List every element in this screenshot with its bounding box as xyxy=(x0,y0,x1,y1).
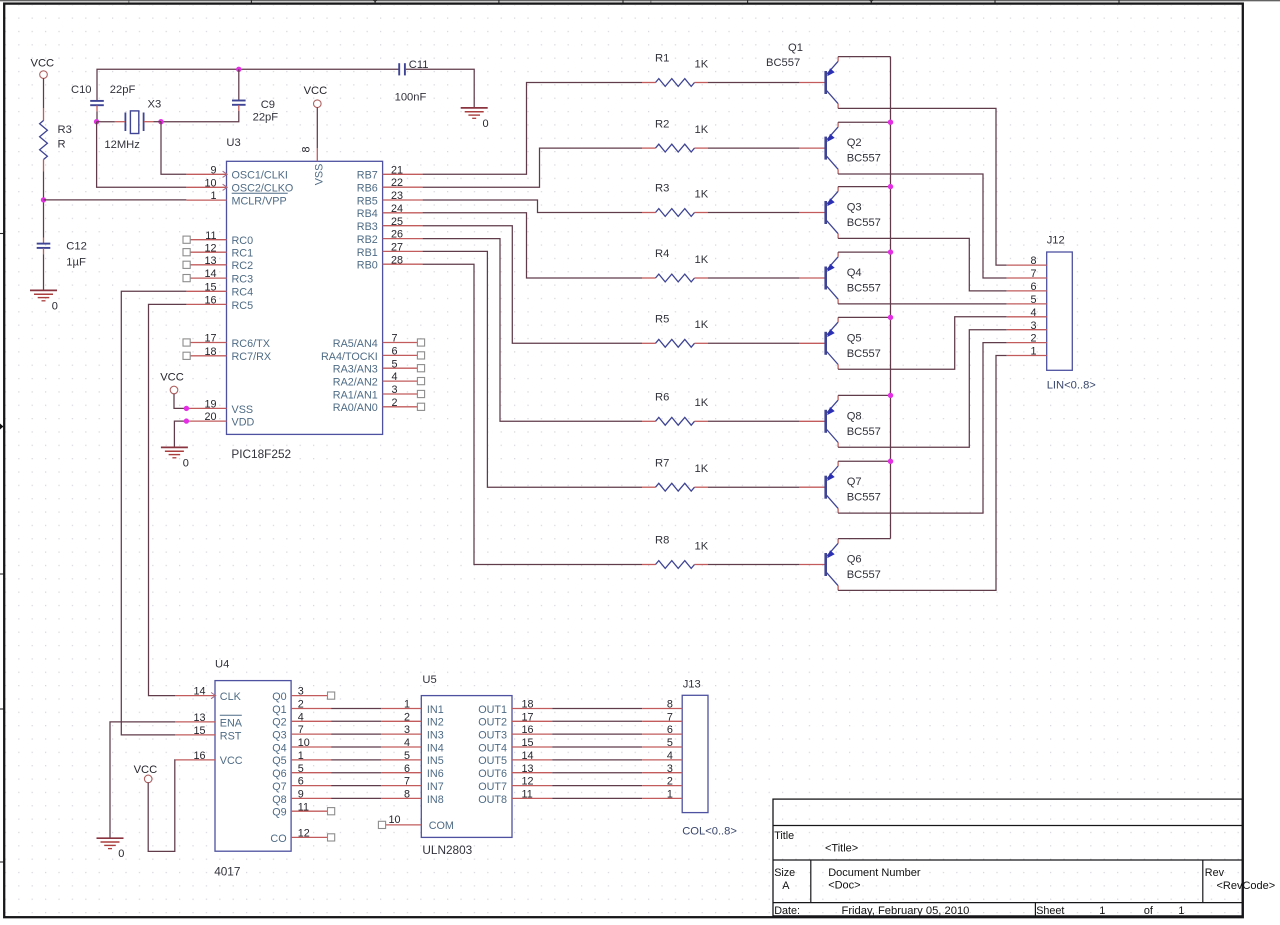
svg-text:1K: 1K xyxy=(695,397,709,409)
svg-text:<RevCode>: <RevCode> xyxy=(1217,880,1276,892)
wire U5 OUT1 to J13 pin8 xyxy=(552,708,642,710)
connector J12 pin 1 xyxy=(1007,346,1047,358)
svg-text:24: 24 xyxy=(391,203,403,215)
wire U5 OUT3 to J13 pin6 xyxy=(552,733,642,735)
power symbol VCC near U4 xyxy=(134,764,158,783)
svg-text:0: 0 xyxy=(118,848,124,860)
svg-text:OUT2: OUT2 xyxy=(478,717,507,729)
power symbol VCC above U3 pin8 xyxy=(304,85,328,108)
ic U4 pin 1 Q5 xyxy=(272,750,331,767)
svg-text:R5: R5 xyxy=(655,314,669,326)
capacitor C10 xyxy=(71,84,135,105)
wire U5 OUT6 to J13 pin3 xyxy=(552,772,642,774)
wire VCC to U3 pin8 xyxy=(316,107,318,148)
ic U5 pin 12 OUT7 xyxy=(478,776,552,793)
svg-text:R7: R7 xyxy=(655,457,669,469)
ic U3 pin 12 RC1 xyxy=(183,242,253,259)
svg-text:11: 11 xyxy=(522,789,533,801)
svg-text:R8: R8 xyxy=(655,535,669,547)
svg-text:1K: 1K xyxy=(695,540,709,552)
svg-text:RC6/TX: RC6/TX xyxy=(232,338,270,350)
ic U4 pin 11 Q9 xyxy=(272,801,335,818)
ic U5 pin 10 COM xyxy=(378,814,454,832)
ic U3 pin 18 RC7/RX xyxy=(183,346,271,363)
svg-text:RC0: RC0 xyxy=(232,235,254,247)
svg-text:Q2: Q2 xyxy=(847,137,862,149)
svg-text:1µF: 1µF xyxy=(66,257,86,269)
svg-text:7: 7 xyxy=(298,724,304,736)
svg-text:8: 8 xyxy=(667,699,673,711)
svg-text:X3: X3 xyxy=(148,98,162,110)
ic U3 pin 19 VSS xyxy=(186,399,253,416)
wire crystal left to OSC2 xyxy=(97,122,187,188)
ic U3 PIC18F252 body xyxy=(226,137,382,461)
title block frame xyxy=(773,799,1242,916)
svg-text:BC557: BC557 xyxy=(847,569,881,581)
connector J13 pin 3 xyxy=(642,763,682,775)
connector J12 body xyxy=(1047,235,1096,392)
svg-text:14: 14 xyxy=(522,750,534,762)
connector J12 pin 4 xyxy=(1007,307,1047,319)
transistor Q8 BC557 xyxy=(799,395,881,447)
wire Q3 collector to J12 pin6 xyxy=(838,238,1007,291)
svg-text:U5: U5 xyxy=(422,674,436,686)
svg-text:3: 3 xyxy=(1030,320,1036,332)
wire VCC to VSS pin19 xyxy=(174,394,186,409)
svg-text:12: 12 xyxy=(204,242,216,254)
svg-text:1: 1 xyxy=(1030,346,1036,358)
svg-text:27: 27 xyxy=(391,242,403,254)
resistor R4 1K xyxy=(642,248,709,282)
ic U5 pin 1 IN1 xyxy=(381,699,443,716)
svg-text:OSC1/CLKI: OSC1/CLKI xyxy=(232,170,288,182)
svg-text:21: 21 xyxy=(391,164,403,176)
resistor R3 xyxy=(40,121,72,160)
wire Q4 collector to J12 pin5 xyxy=(838,303,1007,305)
svg-text:5: 5 xyxy=(1030,294,1036,306)
wire C9 to crystal right node xyxy=(161,105,239,122)
wire R2 to Q2 base xyxy=(708,147,799,149)
svg-text:1: 1 xyxy=(667,789,673,801)
svg-text:RC3: RC3 xyxy=(232,274,254,286)
connector J13 pin 7 xyxy=(642,711,682,723)
wire Q4 emitter to bus xyxy=(838,251,890,253)
svg-text:17: 17 xyxy=(522,711,534,723)
svg-text:16: 16 xyxy=(522,724,534,736)
svg-text:RC1: RC1 xyxy=(232,248,254,260)
crystal X3 xyxy=(104,98,161,151)
node crystal right junction xyxy=(158,119,163,124)
connector J13 pin 4 xyxy=(642,750,682,762)
svg-text:Q6: Q6 xyxy=(272,768,286,780)
svg-text:RB5: RB5 xyxy=(357,195,378,207)
svg-text:8: 8 xyxy=(404,789,410,801)
svg-text:C9: C9 xyxy=(261,99,275,111)
svg-text:13: 13 xyxy=(522,763,534,775)
svg-text:RA2/AN2: RA2/AN2 xyxy=(333,377,378,389)
wire C11 right to ground xyxy=(406,69,474,107)
svg-text:15: 15 xyxy=(522,737,534,749)
svg-text:1K: 1K xyxy=(695,319,709,331)
wire U4 ENA to ground xyxy=(110,722,175,838)
svg-text:1K: 1K xyxy=(695,124,709,136)
wire U5 OUT7 to J13 pin2 xyxy=(552,785,642,787)
svg-text:Q5: Q5 xyxy=(847,332,862,344)
wire net RB0 to R8 xyxy=(423,264,642,564)
ic U3 pin 14 RC3 xyxy=(183,268,253,285)
svg-text:11: 11 xyxy=(298,801,309,813)
svg-text:1K: 1K xyxy=(695,58,709,70)
svg-text:15: 15 xyxy=(204,281,216,293)
svg-text:IN6: IN6 xyxy=(427,768,444,780)
connector J12 pin 5 xyxy=(1007,294,1047,306)
node bus junction Q5 xyxy=(888,315,893,320)
wire Q7 emitter to bus xyxy=(838,460,890,462)
svg-text:OUT1: OUT1 xyxy=(478,704,507,716)
svg-text:Document Number: Document Number xyxy=(828,867,921,879)
ic U5 ULN2803 body xyxy=(421,674,512,857)
wire R3 to Q3 base xyxy=(708,212,799,214)
svg-text:5: 5 xyxy=(298,763,304,775)
power symbol VCC (top left) xyxy=(31,58,55,79)
svg-text:VCC: VCC xyxy=(304,85,328,97)
svg-text:VCC: VCC xyxy=(134,764,158,776)
ic U3 pin 15 RC4 xyxy=(186,281,253,298)
svg-text:6: 6 xyxy=(667,724,673,736)
svg-text:3: 3 xyxy=(298,686,304,698)
ic U4 pin 10 Q4 xyxy=(272,737,331,754)
ic U3 pin 8 VSS top xyxy=(301,146,326,185)
resistor R8 1K xyxy=(642,535,709,569)
node bus junction Q7 xyxy=(888,459,893,464)
svg-text:16: 16 xyxy=(193,750,205,762)
svg-text:6: 6 xyxy=(392,346,398,358)
svg-text:BC557: BC557 xyxy=(847,153,881,165)
svg-text:1: 1 xyxy=(298,750,304,762)
ic U5 pin 3 IN3 xyxy=(381,724,443,741)
svg-text:Q4: Q4 xyxy=(847,267,862,279)
wire U4 Q8 to U5 IN8 xyxy=(331,797,381,799)
svg-text:4: 4 xyxy=(392,371,398,383)
svg-text:0: 0 xyxy=(52,300,58,312)
wire U4 Q1 to U5 IN1 xyxy=(331,708,381,710)
ic U4 pin 3 Q0 xyxy=(272,686,335,703)
node MCLR junction xyxy=(41,197,46,202)
svg-text:19: 19 xyxy=(204,399,216,411)
svg-text:RB0: RB0 xyxy=(357,260,378,272)
wire Q5 collector to J12 pin4 xyxy=(838,317,1007,369)
svg-text:RA0/AN0: RA0/AN0 xyxy=(333,402,378,414)
connector J12 pin 7 xyxy=(1007,268,1047,280)
ic U3 pin 28 RB0 xyxy=(357,254,423,271)
ic U3 pin 10 OSC2/CLKO xyxy=(186,177,293,194)
ic U3 pin 3 RA1/AN1 xyxy=(333,384,425,401)
ic U3 pin 9 OSC1/CLKI xyxy=(186,164,288,181)
ic U5 pin 13 OUT6 xyxy=(478,763,552,780)
ic U3 pin 22 RB6 xyxy=(357,177,423,194)
wire R6 to Q8 base xyxy=(708,420,799,422)
svg-text:7: 7 xyxy=(404,776,410,788)
node junction pin19 xyxy=(184,406,189,411)
ic U4 pin 15 RST xyxy=(175,725,242,742)
wire C9 drop xyxy=(238,69,240,100)
connector J12 pin 8 xyxy=(1007,255,1047,267)
svg-text:RC7/RX: RC7/RX xyxy=(232,351,272,363)
svg-text:RST: RST xyxy=(220,730,242,742)
ic U4 pin 14 CLK xyxy=(175,686,242,703)
svg-text:Q4: Q4 xyxy=(272,742,286,754)
node crystal left junction xyxy=(94,119,99,124)
svg-text:1: 1 xyxy=(1178,905,1184,917)
svg-text:7: 7 xyxy=(667,711,673,723)
wire Q6 emitter from bus end xyxy=(838,538,890,540)
node junction pin20 xyxy=(184,418,189,423)
svg-text:22pF: 22pF xyxy=(110,84,136,96)
wire U4 Q4 to U5 IN4 xyxy=(331,746,381,748)
node bus junction Q3 xyxy=(888,184,893,189)
svg-text:22: 22 xyxy=(391,177,403,189)
node bus junction Q8 xyxy=(888,393,893,398)
svg-text:RA4/TOCKI: RA4/TOCKI xyxy=(321,351,378,363)
svg-text:9: 9 xyxy=(210,164,216,176)
svg-text:0: 0 xyxy=(183,457,189,469)
svg-text:BC557: BC557 xyxy=(847,492,881,504)
top ruler ticks xyxy=(127,0,1119,5)
svg-text:VDD: VDD xyxy=(232,417,255,429)
node junction above C9 xyxy=(236,67,241,72)
svg-text:14: 14 xyxy=(193,686,205,698)
svg-text:Q2: Q2 xyxy=(272,717,286,729)
svg-text:4: 4 xyxy=(298,711,304,723)
svg-text:R2: R2 xyxy=(655,118,669,130)
wire net RB6 to R2 xyxy=(423,148,642,187)
wire VDD pin20 to ground xyxy=(174,421,186,447)
wire net RB1 to R7 xyxy=(423,251,642,487)
svg-text:J12: J12 xyxy=(1047,235,1065,247)
capacitor C9 xyxy=(232,99,278,123)
node bus junction Q4 xyxy=(888,249,893,254)
wire RC4 to U4 RST xyxy=(121,291,186,735)
transistor Q2 BC557 xyxy=(799,122,881,174)
svg-text:PIC18F252: PIC18F252 xyxy=(231,447,291,461)
connector J12 pin 6 xyxy=(1007,281,1047,293)
svg-text:17: 17 xyxy=(204,333,216,345)
ic U3 pin 16 RC5 xyxy=(186,295,253,312)
svg-text:VCC: VCC xyxy=(160,371,184,383)
ic U5 pin 14 OUT5 xyxy=(478,750,552,767)
svg-text:Title: Title xyxy=(774,830,794,842)
svg-text:OUT6: OUT6 xyxy=(478,768,507,780)
svg-text:Q3: Q3 xyxy=(847,202,862,214)
wire Q5 emitter to bus xyxy=(838,316,890,318)
svg-text:U4: U4 xyxy=(215,659,229,671)
ground 0 below C11 xyxy=(461,108,489,130)
svg-text:13: 13 xyxy=(204,255,216,267)
wire U5 OUT8 to J13 pin1 xyxy=(552,797,642,799)
resistor R2 1K xyxy=(642,118,709,152)
svg-text:OUT4: OUT4 xyxy=(478,742,507,754)
svg-text:10: 10 xyxy=(204,177,216,189)
wire Q2 collector to J12 pin7 xyxy=(838,174,1007,278)
ic U5 pin 17 OUT2 xyxy=(478,711,552,728)
svg-text:OUT8: OUT8 xyxy=(478,794,507,806)
connector J13 pin 8 xyxy=(642,699,682,711)
svg-text:Date:: Date: xyxy=(774,905,800,917)
svg-text:RA1/AN1: RA1/AN1 xyxy=(333,389,378,401)
wire net RB7 to R1 xyxy=(423,83,642,175)
svg-text:VSS: VSS xyxy=(314,164,326,186)
svg-text:Q5: Q5 xyxy=(272,755,286,767)
wire R5 to Q5 base xyxy=(708,342,799,344)
svg-text:RC2: RC2 xyxy=(232,260,254,272)
wire U5 OUT2 to J13 pin7 xyxy=(552,720,642,722)
svg-text:A: A xyxy=(782,880,790,892)
wire net RB4 to R4 xyxy=(423,213,642,278)
svg-text:RB7: RB7 xyxy=(357,170,378,182)
svg-text:8: 8 xyxy=(1030,255,1036,267)
transistor Q3 BC557 xyxy=(799,187,881,239)
wire U4 Q2 to U5 IN2 xyxy=(331,720,381,722)
wire MCLR net xyxy=(44,199,187,201)
wire Q2 emitter to bus xyxy=(838,121,890,123)
wire RC5 to U4 CLK xyxy=(149,304,187,695)
ic U4 pin 16 VCC xyxy=(175,750,243,767)
svg-text:18: 18 xyxy=(522,699,534,711)
svg-text:5: 5 xyxy=(404,750,410,762)
svg-text:0: 0 xyxy=(483,118,489,130)
ic U3 pin 2 RA0/AN0 xyxy=(333,397,425,414)
svg-text:7: 7 xyxy=(1030,268,1036,280)
svg-text:<Title>: <Title> xyxy=(825,843,858,855)
ic U4 4017 body xyxy=(214,659,291,879)
ic U4 pin 4 Q2 xyxy=(272,711,331,728)
ic U5 pin 18 OUT1 xyxy=(478,699,552,716)
connector J13 pin 1 xyxy=(642,789,682,801)
wire Q6 collector to J12 pin1 xyxy=(838,356,1007,591)
svg-text:BC557: BC557 xyxy=(847,426,881,438)
wire net RB5 to R3(1K) xyxy=(423,200,642,213)
wire Q1 collector to J12 pin8 xyxy=(838,108,1007,265)
svg-text:3: 3 xyxy=(404,724,410,736)
svg-text:1K: 1K xyxy=(695,463,709,475)
svg-text:ENA: ENA xyxy=(220,717,243,729)
svg-text:1K: 1K xyxy=(695,254,709,266)
wire U4 Q3 to U5 IN3 xyxy=(331,733,381,735)
wire R1 to Q1 base xyxy=(708,82,799,84)
svg-text:10: 10 xyxy=(298,737,310,749)
svg-text:R4: R4 xyxy=(655,248,669,260)
svg-text:2: 2 xyxy=(667,776,673,788)
svg-text:OUT3: OUT3 xyxy=(478,730,507,742)
ground 0 below U3 xyxy=(161,447,189,469)
svg-text:BC557: BC557 xyxy=(847,283,881,295)
svg-text:15: 15 xyxy=(193,725,205,737)
resistor R5 1K xyxy=(642,314,709,348)
ic U5 pin 11 OUT8 xyxy=(478,789,552,806)
svg-text:RB2: RB2 xyxy=(357,234,378,246)
svg-text:25: 25 xyxy=(391,216,403,228)
connector J13 body xyxy=(682,678,737,837)
ic U4 pin 7 Q3 xyxy=(272,724,331,741)
svg-text:Q9: Q9 xyxy=(272,807,286,819)
svg-text:Q0: Q0 xyxy=(272,691,286,703)
connector J13 pin 2 xyxy=(642,776,682,788)
ic U5 pin 8 IN8 xyxy=(381,789,443,806)
ic U3 pin 23 RB5 xyxy=(357,190,423,207)
ground 0 below C12 xyxy=(30,290,58,312)
svg-text:4: 4 xyxy=(404,737,410,749)
svg-text:ULN2803: ULN2803 xyxy=(422,843,472,857)
left ruler ticks xyxy=(0,234,3,863)
svg-text:8: 8 xyxy=(301,146,313,152)
svg-text:OUT7: OUT7 xyxy=(478,781,507,793)
svg-text:12MHz: 12MHz xyxy=(104,139,140,151)
svg-text:4: 4 xyxy=(667,750,673,762)
wire Q7 collector to J12 pin2 xyxy=(838,343,1007,513)
wire emitter bus vertical xyxy=(890,57,892,539)
svg-text:Friday, February 05, 2010: Friday, February 05, 2010 xyxy=(842,905,970,917)
resistor R6 1K xyxy=(642,392,709,426)
svg-text:20: 20 xyxy=(204,411,216,423)
svg-text:Size: Size xyxy=(774,867,795,879)
svg-text:Q6: Q6 xyxy=(847,554,862,566)
ic U3 pin 5 RA3/AN3 xyxy=(333,358,425,375)
wire U4 Q5 to U5 IN5 xyxy=(331,759,381,761)
wire Q3 emitter to bus xyxy=(838,186,890,188)
svg-text:CLK: CLK xyxy=(220,691,242,703)
svg-text:Rev: Rev xyxy=(1205,867,1225,879)
svg-text:Q1: Q1 xyxy=(788,42,803,54)
svg-text:RB4: RB4 xyxy=(357,208,378,220)
wire U4 Q7 to U5 IN7 xyxy=(331,785,381,787)
svg-text:14: 14 xyxy=(204,268,216,280)
ic U3 pin 27 RB1 xyxy=(357,242,423,259)
ic U3 pin 21 RB7 xyxy=(357,164,423,181)
ic U3 pin 20 VDD xyxy=(186,411,254,428)
svg-text:RA3/AN3: RA3/AN3 xyxy=(333,364,378,376)
svg-text:C10: C10 xyxy=(71,84,92,96)
svg-text:RC4: RC4 xyxy=(232,287,254,299)
svg-text:22pF: 22pF xyxy=(253,111,279,123)
svg-text:BC557: BC557 xyxy=(766,57,800,69)
svg-text:Q8: Q8 xyxy=(847,410,862,422)
svg-text:VCC: VCC xyxy=(220,755,243,767)
svg-text:CO: CO xyxy=(270,833,286,845)
svg-text:1K: 1K xyxy=(695,188,709,200)
wire net RB3 to R5 xyxy=(423,226,642,344)
power symbol VCC at U3 VSS xyxy=(160,371,184,393)
ic U3 pin 13 RC2 xyxy=(183,255,253,272)
svg-text:of: of xyxy=(1144,905,1154,917)
wire crystal right to OSC1 xyxy=(153,122,186,175)
ic U3 pin 7 RA5/AN4 xyxy=(333,333,425,350)
svg-text:9: 9 xyxy=(298,789,304,801)
svg-text:LIN<0..8>: LIN<0..8> xyxy=(1047,380,1096,392)
wire Q8 collector to J12 pin3 xyxy=(838,330,1007,448)
svg-text:Q3: Q3 xyxy=(272,730,286,742)
node bus junction Q2 xyxy=(888,120,893,125)
wire Q8 emitter to bus xyxy=(838,394,890,396)
svg-text:IN2: IN2 xyxy=(427,717,444,729)
svg-text:R3: R3 xyxy=(58,124,72,136)
svg-text:VCC: VCC xyxy=(31,58,55,70)
svg-text:100nF: 100nF xyxy=(395,91,427,103)
svg-text:2: 2 xyxy=(404,711,410,723)
svg-text:IN1: IN1 xyxy=(427,704,444,716)
ic U3 pin 17 RC6/TX xyxy=(183,333,270,350)
svg-text:18: 18 xyxy=(204,346,216,358)
svg-text:23: 23 xyxy=(391,190,403,202)
